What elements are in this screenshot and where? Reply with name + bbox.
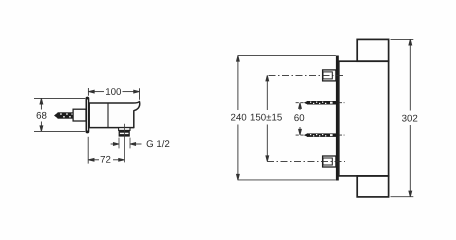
main body rectangle	[339, 61, 389, 176]
top block	[357, 39, 388, 61]
top bolt centerline	[269, 74, 346, 76]
dimension 302 text	[402, 115, 417, 122]
bottom bolt centerline	[267, 160, 345, 162]
top hex bolt	[323, 70, 336, 81]
dimension 150±15 line and arrows	[266, 75, 269, 161]
dimension 100 line	[88, 88, 139, 100]
dimension 302 line and arrows	[409, 39, 412, 196]
wall flange (escutcheon capsule)	[86, 97, 90, 134]
body interior line	[107, 103, 109, 128]
upper nipple centerline stub right	[339, 102, 345, 104]
dimension 150±15 text	[251, 114, 282, 121]
dimension 72 text	[101, 156, 111, 163]
label G 1/2	[147, 140, 170, 147]
mounting plate (dark bar)	[336, 56, 339, 181]
dimension 240 extension line top	[238, 55, 336, 57]
dimension 60 text	[294, 114, 304, 121]
dimension 68 text	[37, 112, 47, 119]
dimension 68 extension lines	[34, 98, 85, 131]
lower nipple centerline stub left	[296, 134, 304, 136]
G 1/2 dimension arrows	[111, 143, 142, 146]
outlet neck	[119, 128, 130, 131]
upper nipple centerline stub left	[296, 102, 304, 104]
G 1/2 extension line right	[129, 138, 131, 149]
bottom block	[357, 176, 388, 197]
dimension 60 line and arrows	[299, 103, 302, 135]
G 1/2 extension line left	[118, 138, 120, 149]
dimension 302 extension line top	[391, 38, 414, 40]
body of outlet (spout profile)	[89, 102, 139, 128]
inlet connector cylinder	[73, 109, 86, 121]
outlet thread G 1/2 (dark bands)	[119, 130, 130, 136]
dimension 100 text	[106, 88, 121, 95]
inlet thread (hatched bar)	[58, 112, 74, 118]
dimension 240 extension line bottom	[238, 179, 336, 181]
dimension 240 text	[231, 114, 246, 121]
dimension 240 line and arrows	[237, 56, 240, 180]
bottom hex bolt	[323, 156, 336, 167]
outlet centerline	[124, 124, 126, 163]
lower nipple centerline stub right	[339, 134, 345, 136]
lower nipple	[304, 133, 338, 137]
dimension 302 extension line bottom	[391, 196, 414, 198]
inlet nipple cone tip	[54, 112, 58, 118]
dimension 72 arrows	[88, 158, 124, 161]
dimension 72 extension line left	[87, 137, 89, 164]
upper nipple	[304, 101, 338, 105]
